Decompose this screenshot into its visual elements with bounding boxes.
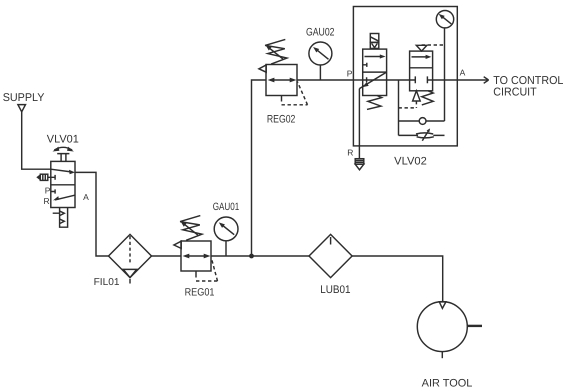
lubricator LUB01 body bbox=[309, 234, 352, 277]
svg-text:GAU02: GAU02 bbox=[306, 27, 335, 39]
throttle branch bbox=[399, 134, 445, 136]
wire supply to VLV01 bbox=[22, 112, 51, 169]
solenoid actuator bbox=[370, 34, 379, 43]
svg-text:VLV01: VLV01 bbox=[47, 134, 79, 146]
svg-text:REG01: REG01 bbox=[185, 287, 215, 299]
air tool M1 body bbox=[417, 302, 467, 352]
VLV02 buildup valve body bbox=[410, 51, 433, 91]
wire between shutoff and buildup valves bbox=[387, 79, 410, 81]
svg-text:AIR TOOL: AIR TOOL bbox=[422, 377, 473, 389]
REG02 flow arrow bbox=[271, 79, 292, 81]
wire REG02 to VLV02 bbox=[297, 79, 353, 81]
REG01 adjustment arrow bbox=[184, 224, 199, 236]
junction node bbox=[249, 254, 254, 259]
VLV01 port P marker bbox=[51, 189, 55, 193]
svg-text:LUB01: LUB01 bbox=[320, 284, 350, 296]
REG01 flow arrow bbox=[186, 255, 206, 257]
shutoff valve top position arrow bbox=[365, 56, 382, 58]
REG01 spring bbox=[180, 216, 202, 241]
wire R exhaust bbox=[358, 89, 360, 159]
svg-text:R: R bbox=[44, 196, 50, 206]
gauge GAU02 stem bbox=[319, 65, 321, 80]
VLV01 port R exhaust arrow bbox=[55, 195, 75, 200]
svg-text:A: A bbox=[83, 192, 89, 202]
gauge GAU01 stem bbox=[225, 241, 227, 256]
svg-text:CIRCUIT: CIRCUIT bbox=[493, 86, 536, 98]
VLV01 lever swing arc bbox=[54, 147, 72, 150]
gauge stem wire bbox=[444, 28, 446, 121]
wire LUB01 to air tool bbox=[352, 256, 443, 301]
buildup valve blocked ports bbox=[410, 76, 433, 83]
wire P into shutoff valve bbox=[353, 79, 362, 81]
svg-text:TO CONTROL: TO CONTROL bbox=[493, 75, 564, 87]
pilot dashed link bbox=[415, 101, 417, 108]
buildup valve top position arrow bbox=[412, 56, 429, 58]
branch wire up to REG02 bbox=[252, 80, 267, 256]
gauge in VLV02 bbox=[436, 11, 453, 28]
VLV02 shutoff valve body bbox=[363, 49, 387, 95]
valve VLV01 body bbox=[51, 161, 75, 207]
VLV01 exhaust muffler bbox=[36, 174, 40, 180]
REG01 relief port triangle bbox=[174, 241, 181, 248]
svg-text:P: P bbox=[45, 185, 51, 195]
shutoff valve spring bbox=[367, 96, 382, 110]
VLV01 lever handle bbox=[57, 154, 69, 162]
wire A output bbox=[433, 79, 488, 81]
svg-text:GAU01: GAU01 bbox=[213, 201, 240, 213]
regulator REG01 body bbox=[181, 241, 211, 271]
VLV01 return spring detent bbox=[53, 208, 68, 228]
valve assembly VLV02 enclosure bbox=[353, 7, 457, 146]
pilot actuator bbox=[370, 42, 379, 48]
filter FIL01 body bbox=[109, 234, 152, 277]
svg-text:SUPPLY: SUPPLY bbox=[3, 92, 45, 104]
REG01 pilot feedback line bbox=[195, 271, 197, 278]
REG02 relief port triangle bbox=[259, 65, 266, 72]
REG02 pilot feedback line bbox=[281, 96, 283, 102]
REG02 spring bbox=[265, 39, 287, 64]
FIL01 dashed element line bbox=[129, 236, 131, 265]
REG02 adjustment arrow bbox=[269, 47, 284, 59]
FIL01 drain stub bbox=[129, 279, 131, 284]
air tool inlet triangle bbox=[439, 302, 446, 309]
main wire REG01 to LUB01 bbox=[211, 255, 309, 257]
VLV01 top position flow arrow bbox=[51, 169, 71, 172]
LUB01 drip element bbox=[330, 237, 332, 245]
shutoff valve flow line bbox=[363, 77, 387, 82]
wire FIL01 to REG01 bbox=[152, 255, 182, 257]
svg-text:VLV02: VLV02 bbox=[394, 155, 427, 167]
supply source port triangle bbox=[18, 105, 26, 112]
gauge GAU02 bbox=[309, 42, 332, 65]
air tool output shaft bbox=[467, 325, 482, 327]
check valve bbox=[419, 118, 426, 125]
air tool bottom stub bbox=[441, 352, 443, 359]
pilot sense wire bbox=[398, 80, 400, 135]
adjustable throttle bbox=[416, 133, 434, 138]
svg-text:FIL01: FIL01 bbox=[94, 277, 120, 288]
R muffler bbox=[355, 159, 364, 165]
regulator REG02 body bbox=[266, 65, 297, 96]
svg-text:P: P bbox=[347, 69, 353, 79]
svg-text:REG02: REG02 bbox=[267, 114, 296, 126]
shutoff valve exhaust arrow bbox=[359, 72, 386, 89]
gauge GAU01 bbox=[214, 217, 238, 241]
svg-text:R: R bbox=[347, 148, 353, 158]
FIL01 water trap triangle bbox=[123, 269, 136, 277]
wire VLV01 A to main line bbox=[75, 172, 109, 256]
buildup valve top pilot triangle bbox=[416, 45, 427, 51]
check valve branch bbox=[399, 120, 445, 122]
buildup valve bottom pilot triangle bbox=[413, 91, 421, 101]
svg-text:A: A bbox=[460, 68, 466, 78]
buildup valve spring bbox=[422, 91, 433, 105]
